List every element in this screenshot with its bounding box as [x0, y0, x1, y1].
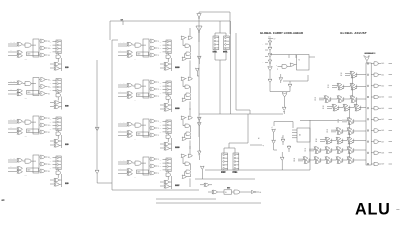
wire sub-cluster join 12 — [170, 99, 172, 112]
half-adder box H1 — [27, 52, 39, 56]
xor gate X13A — [127, 122, 133, 126]
wire row 2 cascade down — [356, 101, 358, 106]
xor gate S1A below block — [50, 62, 60, 66]
adjust xor gate pair T84 — [347, 157, 354, 164]
gcla2 top wire — [274, 122, 293, 129]
register chain R13 — [166, 120, 171, 134]
svg-text:AC2: AC2 — [382, 85, 385, 88]
and gate A13A — [133, 123, 142, 127]
node A B lower stubs — [118, 129, 127, 135]
xor gate S4B below block — [50, 183, 62, 187]
gcla2 gate G65 — [281, 135, 285, 145]
svg-text:S4BB: S4BB — [175, 146, 180, 149]
svg-text:A3B3: A3B3 — [24, 58, 27, 61]
svg-text:C1: C1 — [50, 45, 52, 47]
or gate O14C — [149, 171, 159, 175]
wire top-left corner down — [109, 21, 111, 40]
svg-text:S2: S2 — [48, 93, 50, 95]
accumulator D gate AC0 — [371, 140, 392, 143]
svg-text:A1B1: A1B1 — [24, 135, 27, 138]
gcla or gate G61 — [270, 92, 290, 108]
svg-text:C2: C2 — [50, 125, 52, 127]
node A3 B3 input labels — [8, 41, 17, 46]
svg-text:F: F — [158, 135, 159, 137]
or gate pair R3A — [181, 116, 193, 119]
or gate O1A — [39, 39, 50, 43]
gcla2 gate G64 — [272, 140, 277, 150]
node A0 B0 input labels — [8, 157, 17, 162]
label S4BB12 — [175, 107, 179, 109]
svg-text:c1: c1 — [271, 127, 273, 129]
enclosure vertical x236 — [236, 33, 250, 114]
adjust row 7 input stubs — [305, 149, 315, 153]
or gate O4A — [39, 155, 50, 159]
adjust xor gate pair T83 — [336, 157, 343, 164]
svg-text:AB: AB — [134, 58, 136, 61]
svg-text:A2B2: A2B2 — [24, 97, 27, 100]
wire row 4 cascade down — [349, 123, 351, 129]
svg-text:C3: C3 — [50, 129, 52, 131]
svg-text:C0: C0 — [160, 82, 162, 84]
register chain R12 — [166, 81, 171, 95]
xor gate S12B below block — [160, 108, 172, 112]
and gate under chain 14 — [166, 172, 171, 180]
carry rect K13 — [143, 119, 149, 137]
accumulator D gate AC0 — [371, 151, 392, 154]
wire row1 to rect — [31, 44, 36, 46]
wire row 1 seg 0 — [342, 86, 350, 88]
adjust xor gate pair T61 — [336, 137, 343, 144]
register chain BPAL — [224, 33, 230, 50]
svg-text:C1: C1 — [160, 125, 162, 127]
adjust xor gate pair T31 — [343, 104, 350, 111]
or gate O14B — [149, 164, 159, 168]
wire chains top taps — [215, 21, 226, 33]
svg-text:C0: C0 — [50, 80, 52, 82]
svg-text:C1: C1 — [50, 161, 52, 163]
enclosure bottom wires — [137, 190, 261, 203]
accumulator D gate AC6 — [371, 73, 392, 76]
or gate O1B — [39, 46, 50, 50]
label SUB4 — [65, 182, 68, 184]
wire row 2 seg 1 — [342, 98, 350, 100]
gcla2 gate G63 — [272, 129, 276, 140]
node A B input labels — [118, 82, 127, 87]
wire sub-cluster join 13 — [170, 138, 172, 151]
adjust xor gate pair T60 — [325, 137, 332, 144]
or gate R1D — [182, 55, 191, 69]
or gate pair R4A — [181, 154, 193, 157]
wire row 8 seg 1 — [319, 159, 325, 161]
wires cascade R3 — [183, 108, 190, 126]
xor gate X11C — [127, 54, 133, 57]
xor gate X1A — [17, 42, 23, 46]
gcla mux rect M1 — [297, 55, 316, 71]
label BPAL — [223, 51, 227, 53]
adjust xor gate pair T40 — [347, 118, 354, 125]
svg-text:C0: C0 — [50, 157, 52, 159]
accumulator D gate AC3 — [371, 107, 392, 110]
svg-text:AC: AC — [299, 134, 302, 137]
xor gate S3A below block — [50, 139, 60, 143]
node A0 B0 lower stubs — [8, 165, 17, 171]
gcla gate G57 — [290, 63, 297, 66]
or gate O12C — [149, 94, 159, 98]
svg-text:C3: C3 — [50, 90, 52, 92]
xor gate S1B below block — [50, 67, 62, 71]
input stubs chain 3 — [50, 118, 56, 130]
svg-text:ADD: ADD — [138, 53, 141, 56]
wire row 5 cascade down — [349, 133, 351, 139]
carry rect K1 — [33, 39, 39, 57]
accumulator D gate AC5 — [371, 84, 392, 87]
wire sub-cluster join 11 — [170, 58, 172, 71]
svg-text:ADD: ADD — [28, 53, 31, 56]
wire chains2 top taps — [224, 143, 248, 148]
svg-text:C0: C0 — [50, 41, 52, 43]
svg-text:AB: AB — [134, 99, 136, 102]
xor gate X14C — [127, 172, 133, 175]
gcla or gate G55 — [268, 67, 272, 80]
wire sub-cluster join 4 — [60, 174, 62, 187]
accumulator D gate AC1 — [371, 129, 392, 132]
label SUB2 — [65, 105, 68, 107]
svg-text:CYBB: CYBB — [232, 172, 238, 174]
wire row 7 seg 1 — [330, 149, 336, 151]
or gate pair R2A — [181, 77, 193, 80]
and gate under chain 1 — [56, 54, 61, 62]
wire row 7 cascade down — [349, 152, 351, 158]
xor gate S11A below block — [160, 62, 170, 66]
accumulator cells — [367, 63, 369, 165]
svg-text:C3: C3 — [160, 93, 162, 95]
clock stub label — [121, 19, 124, 25]
svg-text:C3: C3 — [50, 52, 52, 54]
or gate O11A — [149, 39, 159, 43]
input stubs chain 11 — [160, 41, 166, 53]
carry rect K2 — [33, 78, 39, 96]
adjust row 8 input stubs — [294, 159, 304, 163]
svg-text:AB: AB — [134, 176, 136, 179]
xor gate X2B — [17, 89, 23, 93]
svg-text:C2: C2 — [160, 89, 162, 91]
xor gate X14A — [127, 160, 133, 164]
adjust row 0 input stubs — [341, 73, 351, 77]
adjust xor gate pair T30 — [332, 104, 339, 111]
or gate O3B — [39, 123, 50, 127]
adjust xor gate pair T21 — [337, 96, 344, 103]
and gate R2B — [185, 85, 191, 93]
svg-text:C2: C2 — [50, 164, 52, 166]
or gate O1C — [39, 53, 50, 57]
svg-text:S4BB: S4BB — [175, 107, 180, 110]
wire row1 to rect — [31, 121, 36, 123]
and gate under chain 11 — [166, 54, 171, 62]
svg-text:AL: AL — [260, 191, 262, 194]
adjust row 3 input stubs — [323, 106, 333, 110]
svg-text:C0: C0 — [160, 159, 162, 161]
svg-text:S4BB: S4BB — [175, 66, 180, 69]
svg-text:SUB: SUB — [65, 67, 69, 69]
xor gate X12B — [127, 92, 133, 96]
or gate O14A — [149, 157, 159, 161]
svg-text:SUB: SUB — [65, 106, 69, 108]
half-adder box H2 — [27, 91, 39, 95]
wire right vertical x230.7 — [230, 21, 232, 114]
input stubs chain 14 — [160, 159, 166, 171]
wire row 5 to accumulator — [352, 130, 366, 132]
svg-text:g: g — [277, 68, 278, 70]
input stubs chain 2 — [50, 80, 56, 92]
or gate G36 — [201, 166, 205, 179]
wire adjust long y120 — [300, 119, 342, 121]
wire sub-cluster join 3 — [60, 135, 62, 148]
label CYBB — [232, 171, 236, 173]
or gate G38 on x97 — [95, 170, 112, 183]
xor gate X3C — [17, 131, 23, 134]
svg-text:[ C ]: [ C ] — [268, 36, 271, 38]
and gate A11A — [133, 43, 142, 47]
carry rect K11 — [143, 39, 149, 57]
wire vertical x310 — [309, 120, 311, 170]
xor gate X13B — [127, 131, 133, 135]
wire row1 to rect — [141, 85, 146, 87]
svg-text:AC0: AC0 — [382, 62, 385, 65]
xor gate X12A — [127, 83, 133, 87]
svg-text:A0B0: A0B0 — [24, 174, 27, 177]
svg-text:C1: C1 — [50, 122, 52, 124]
gcla gate G62 — [282, 107, 286, 112]
long wire y114 — [199, 113, 283, 115]
svg-text:SUB: SUB — [65, 183, 69, 185]
or gate O12A — [149, 80, 159, 84]
adjust row 4 input stubs — [338, 120, 348, 124]
register chain R14 — [166, 158, 171, 172]
accumulator D gate AC4 — [371, 95, 392, 98]
wire row 6 seg 1 — [341, 140, 347, 142]
or gate O13B — [149, 126, 159, 130]
svg-text:AC4: AC4 — [382, 107, 385, 110]
adjust xor gate pair T11 — [350, 83, 357, 90]
wire stub right of ALU — [396, 209, 399, 211]
register chain R11 — [166, 40, 171, 54]
gcla2 gate G67 — [280, 152, 284, 170]
vertical wire x97 inter-column — [96, 60, 98, 170]
register chain R4 — [56, 156, 61, 170]
node A1 B1 input labels — [8, 118, 17, 123]
xor gate X4B — [17, 167, 23, 171]
xor gate S2A below block — [50, 101, 60, 105]
node A B lower stubs — [118, 167, 127, 173]
and gate under chain 3 — [56, 131, 61, 139]
adjust xor gate pair T20 — [324, 96, 331, 103]
half-adder box H4 — [27, 168, 39, 172]
svg-text:C1: C1 — [160, 45, 162, 47]
or gate O3A — [39, 116, 50, 120]
xor gate X3B — [17, 128, 23, 132]
wire y170 — [205, 169, 310, 171]
svg-text:C0: C0 — [50, 118, 52, 120]
or gate O11B — [149, 46, 159, 50]
adjust xor gate pair T81 — [314, 157, 321, 164]
svg-text:C3: C3 — [160, 132, 162, 134]
wire row 3 cascade down — [349, 109, 351, 119]
and gate R1B — [185, 44, 191, 52]
wire row 1 to accumulator — [355, 86, 366, 88]
and gate G35 — [198, 137, 201, 160]
label S4BB13 — [175, 146, 179, 148]
node A1 B1 lower stubs — [8, 126, 17, 132]
and gate R3C — [185, 132, 191, 138]
or gate O3C — [39, 130, 50, 134]
svg-text:GLOBAL CARRY LOOK-AHEAD: GLOBAL CARRY LOOK-AHEAD — [260, 31, 303, 35]
adjust row 1 input stubs — [328, 85, 338, 89]
adjust xor gate pair T72 — [336, 147, 343, 154]
svg-text:DL: DL — [225, 192, 227, 194]
half-adder box H13 — [137, 132, 149, 136]
label SUB1 — [65, 66, 68, 68]
label ACCUMULATOR — [365, 53, 374, 54]
or gate R4D — [182, 173, 191, 187]
svg-text:c: c — [263, 44, 264, 46]
xor gate X11A — [127, 42, 133, 46]
adjust top gate G70 — [364, 55, 369, 63]
adjust row 2 input stubs — [315, 98, 325, 102]
wire row 1 cascade down — [352, 88, 354, 97]
svg-text:CY: CY — [274, 38, 276, 40]
and gate R1C — [185, 52, 191, 58]
adjust xor gate pair T00 — [350, 71, 357, 78]
svg-text:B1: B1 — [328, 85, 330, 87]
svg-text:4-7: 4-7 — [2, 199, 5, 202]
gcla right cluster wires — [270, 55, 296, 59]
label S4BT14 — [175, 184, 179, 186]
node A B input labels — [118, 159, 127, 164]
svg-text:S1: S1 — [48, 132, 50, 134]
register chain R2 — [56, 79, 61, 93]
or gate G32 — [196, 68, 200, 76]
svg-text:SUB: SUB — [65, 144, 69, 146]
svg-text:C1: C1 — [160, 86, 162, 88]
gcla gate G52 — [268, 47, 272, 54]
register chain CPAL — [213, 33, 219, 50]
svg-text:c: c — [276, 65, 277, 67]
vertical bus x199 — [198, 21, 200, 137]
or gate G33 — [198, 117, 202, 122]
or gate R3D — [182, 135, 191, 149]
input stubs chain 4 — [50, 157, 56, 169]
gcla V gate G59 — [279, 74, 283, 83]
svg-text:B5: B5 — [327, 130, 329, 132]
xor gate S14A below block — [160, 180, 170, 184]
vertical bus x230 — [229, 21, 231, 34]
or gate O2B — [39, 85, 50, 89]
wire row 3 seg 0 — [337, 107, 343, 109]
adjust row 5 input stubs — [327, 130, 337, 134]
node A B lower stubs — [118, 90, 127, 96]
buffer gate G39 on x97 — [95, 127, 99, 131]
wire sub-cluster join 14 — [170, 176, 172, 189]
accumulator D gate AC7 — [371, 62, 392, 65]
node A B lower stubs — [118, 49, 127, 55]
xor gate X2A — [17, 81, 23, 85]
label SUB3 — [65, 143, 68, 145]
gcla chain stub labels — [263, 44, 269, 64]
adjust xor gate pair T62 — [347, 137, 354, 144]
svg-text:F: F — [158, 173, 159, 175]
wire row1 to rect — [31, 160, 36, 162]
or gate O13C — [149, 133, 159, 137]
svg-text:GLOBAL ADJUST: GLOBAL ADJUST — [340, 31, 367, 35]
svg-text:AC1: AC1 — [382, 73, 385, 76]
adjust xor gate pair T32 — [354, 104, 361, 111]
big enclosure left edge — [112, 40, 137, 190]
svg-text:M: M — [299, 60, 301, 62]
wire row 3 to accumulator — [359, 107, 366, 109]
adjust xor gate pair T51 — [347, 128, 354, 135]
half-adder box H12 — [137, 93, 149, 97]
gcla2 side label — [250, 137, 264, 147]
xor gate X11B — [127, 51, 133, 55]
xor gate X2C — [17, 92, 23, 95]
wire row 0 to accumulator — [355, 74, 366, 76]
half-adder box H11 — [137, 52, 149, 56]
wires cascade R2 — [183, 69, 190, 87]
figure number bottom-left — [2, 199, 5, 201]
or gate O4C — [39, 169, 50, 173]
gcla top input gate G50 — [268, 38, 276, 41]
svg-text:AC5: AC5 — [382, 118, 385, 121]
svg-text:ADD: ADD — [28, 169, 31, 172]
wire row 7 to accumulator — [352, 149, 366, 151]
wire row 8 seg 2 — [330, 159, 336, 161]
svg-text:C0: C0 — [160, 41, 162, 43]
register chain R3 — [56, 117, 61, 131]
wire row 8 seg 3 — [341, 159, 347, 161]
svg-text:AC8: AC8 — [382, 152, 385, 155]
svg-text:C1: C1 — [50, 83, 52, 85]
wire row1 to rect — [141, 124, 146, 126]
gcla and gate G54 — [268, 60, 271, 67]
and gate G42 — [232, 190, 252, 194]
or gate G31 — [198, 56, 202, 64]
node A B input labels — [118, 121, 127, 126]
svg-text:C2: C2 — [50, 87, 52, 89]
and gate under chain 4 — [56, 170, 61, 178]
or gate pair R1A — [181, 36, 193, 39]
wire row 4 to accumulator — [352, 120, 366, 122]
wire row 8 seg 0 — [308, 159, 314, 161]
svg-text:B0: B0 — [341, 73, 343, 75]
node A2 B2 input labels — [8, 80, 17, 85]
adjust xor gate pair T73 — [347, 147, 354, 154]
svg-text:ADD: ADD — [138, 171, 141, 174]
or gate O12B — [149, 87, 159, 91]
svg-text:B7: B7 — [305, 149, 307, 151]
and gate A4A — [23, 159, 32, 163]
carry rect K14 — [143, 157, 149, 175]
carry rect K12 — [143, 80, 149, 98]
gcla V gate G58 — [268, 79, 272, 92]
adjust xor gate pair T80 — [303, 157, 310, 164]
wire row 7 seg 2 — [341, 149, 347, 151]
xor gate S12A below block — [160, 103, 170, 107]
xor gate S13B below block — [160, 147, 172, 151]
and gate A3A — [23, 120, 32, 124]
gcla2 rect pins — [292, 130, 297, 138]
carry rect K4 — [33, 155, 39, 173]
delay box G41 — [218, 190, 232, 194]
